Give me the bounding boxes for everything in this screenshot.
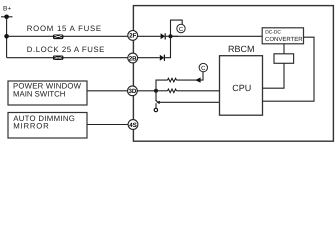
svg-text:B+: B+ xyxy=(3,5,11,12)
wire switch to CPU xyxy=(158,101,220,103)
resistor R1 xyxy=(168,78,177,82)
wire row2 to 2B xyxy=(7,57,128,59)
resistor R2 xyxy=(168,89,177,93)
svg-text:CONVERTER: CONVERTER xyxy=(265,36,303,43)
svg-text:CPU: CPU xyxy=(232,83,251,93)
svg-text:MAIN SWITCH: MAIN SWITCH xyxy=(13,90,65,99)
connector C hook (top) xyxy=(171,20,183,36)
B+ terminal wire xyxy=(1,16,13,18)
wire DC-DC right loop to CPU xyxy=(263,37,315,101)
switch arm xyxy=(155,91,157,101)
junction dot row3 xyxy=(154,89,158,93)
svg-text:ROOM 15 A FUSE: ROOM 15 A FUSE xyxy=(27,24,102,33)
wire switch to 3D xyxy=(87,90,128,92)
connector circle 3D xyxy=(127,86,137,96)
DC-DC converter box xyxy=(262,28,303,44)
wire branch up xyxy=(156,80,168,91)
wire 2B to diode D2 xyxy=(137,57,159,59)
wire row3 junction to R2 xyxy=(156,90,168,92)
wire DC-DC down to resistor xyxy=(283,44,285,54)
switch terminal circle xyxy=(154,108,157,111)
connector circle 2B xyxy=(128,53,138,63)
wire row1 to 2F xyxy=(7,35,128,37)
wire D2 up to junction xyxy=(164,36,170,57)
arrow from C xyxy=(195,77,200,82)
connector circle C mid xyxy=(199,63,207,72)
svg-text:4S: 4S xyxy=(129,122,137,129)
svg-text:2B: 2B xyxy=(129,55,137,62)
wire B+ vertical feed xyxy=(6,17,8,58)
wire resistor to CPU xyxy=(263,63,285,88)
resistor box (below DC-DC) xyxy=(274,54,294,64)
box POWER WINDOW MAIN SWITCH xyxy=(8,81,87,105)
svg-text:2F: 2F xyxy=(129,33,136,40)
connector circle 2F xyxy=(128,31,138,41)
svg-text:C: C xyxy=(201,65,206,72)
diode D2 xyxy=(160,55,165,61)
wire D1 to junction xyxy=(165,35,178,37)
switch kink xyxy=(156,100,159,103)
diode D1 xyxy=(161,33,166,39)
svg-text:D.LOCK 25 A FUSE: D.LOCK 25 A FUSE xyxy=(27,45,105,54)
junction dot diodes xyxy=(169,34,173,38)
svg-text:RBCM: RBCM xyxy=(228,44,255,54)
wire mirror to 4S xyxy=(87,124,128,126)
connector circle 4S xyxy=(128,120,138,130)
switch lower stub xyxy=(155,103,157,108)
box AUTO DIMMING MIRROR xyxy=(8,113,87,139)
junction dot row1 xyxy=(4,34,9,39)
svg-text:3D: 3D xyxy=(128,88,136,95)
switch arrow xyxy=(156,101,160,104)
wire R2 to CPU xyxy=(177,90,220,92)
svg-text:C: C xyxy=(179,26,184,33)
svg-text:DC-DC: DC-DC xyxy=(265,30,281,36)
fuse ROOM 15A xyxy=(53,35,63,40)
wire R1 to arrow xyxy=(177,72,204,80)
CPU box xyxy=(220,56,263,115)
B+ terminal dot xyxy=(4,14,9,19)
wire 3D to junction row3 xyxy=(137,90,156,92)
fuse D.LOCK 25A xyxy=(53,56,63,61)
wire 2F to diode D1 xyxy=(137,35,160,37)
svg-text:MIRROR: MIRROR xyxy=(13,122,49,131)
RBCM module box xyxy=(133,6,333,142)
connector circle C top xyxy=(177,24,185,33)
wire junction to DC-DC converter xyxy=(171,35,263,37)
